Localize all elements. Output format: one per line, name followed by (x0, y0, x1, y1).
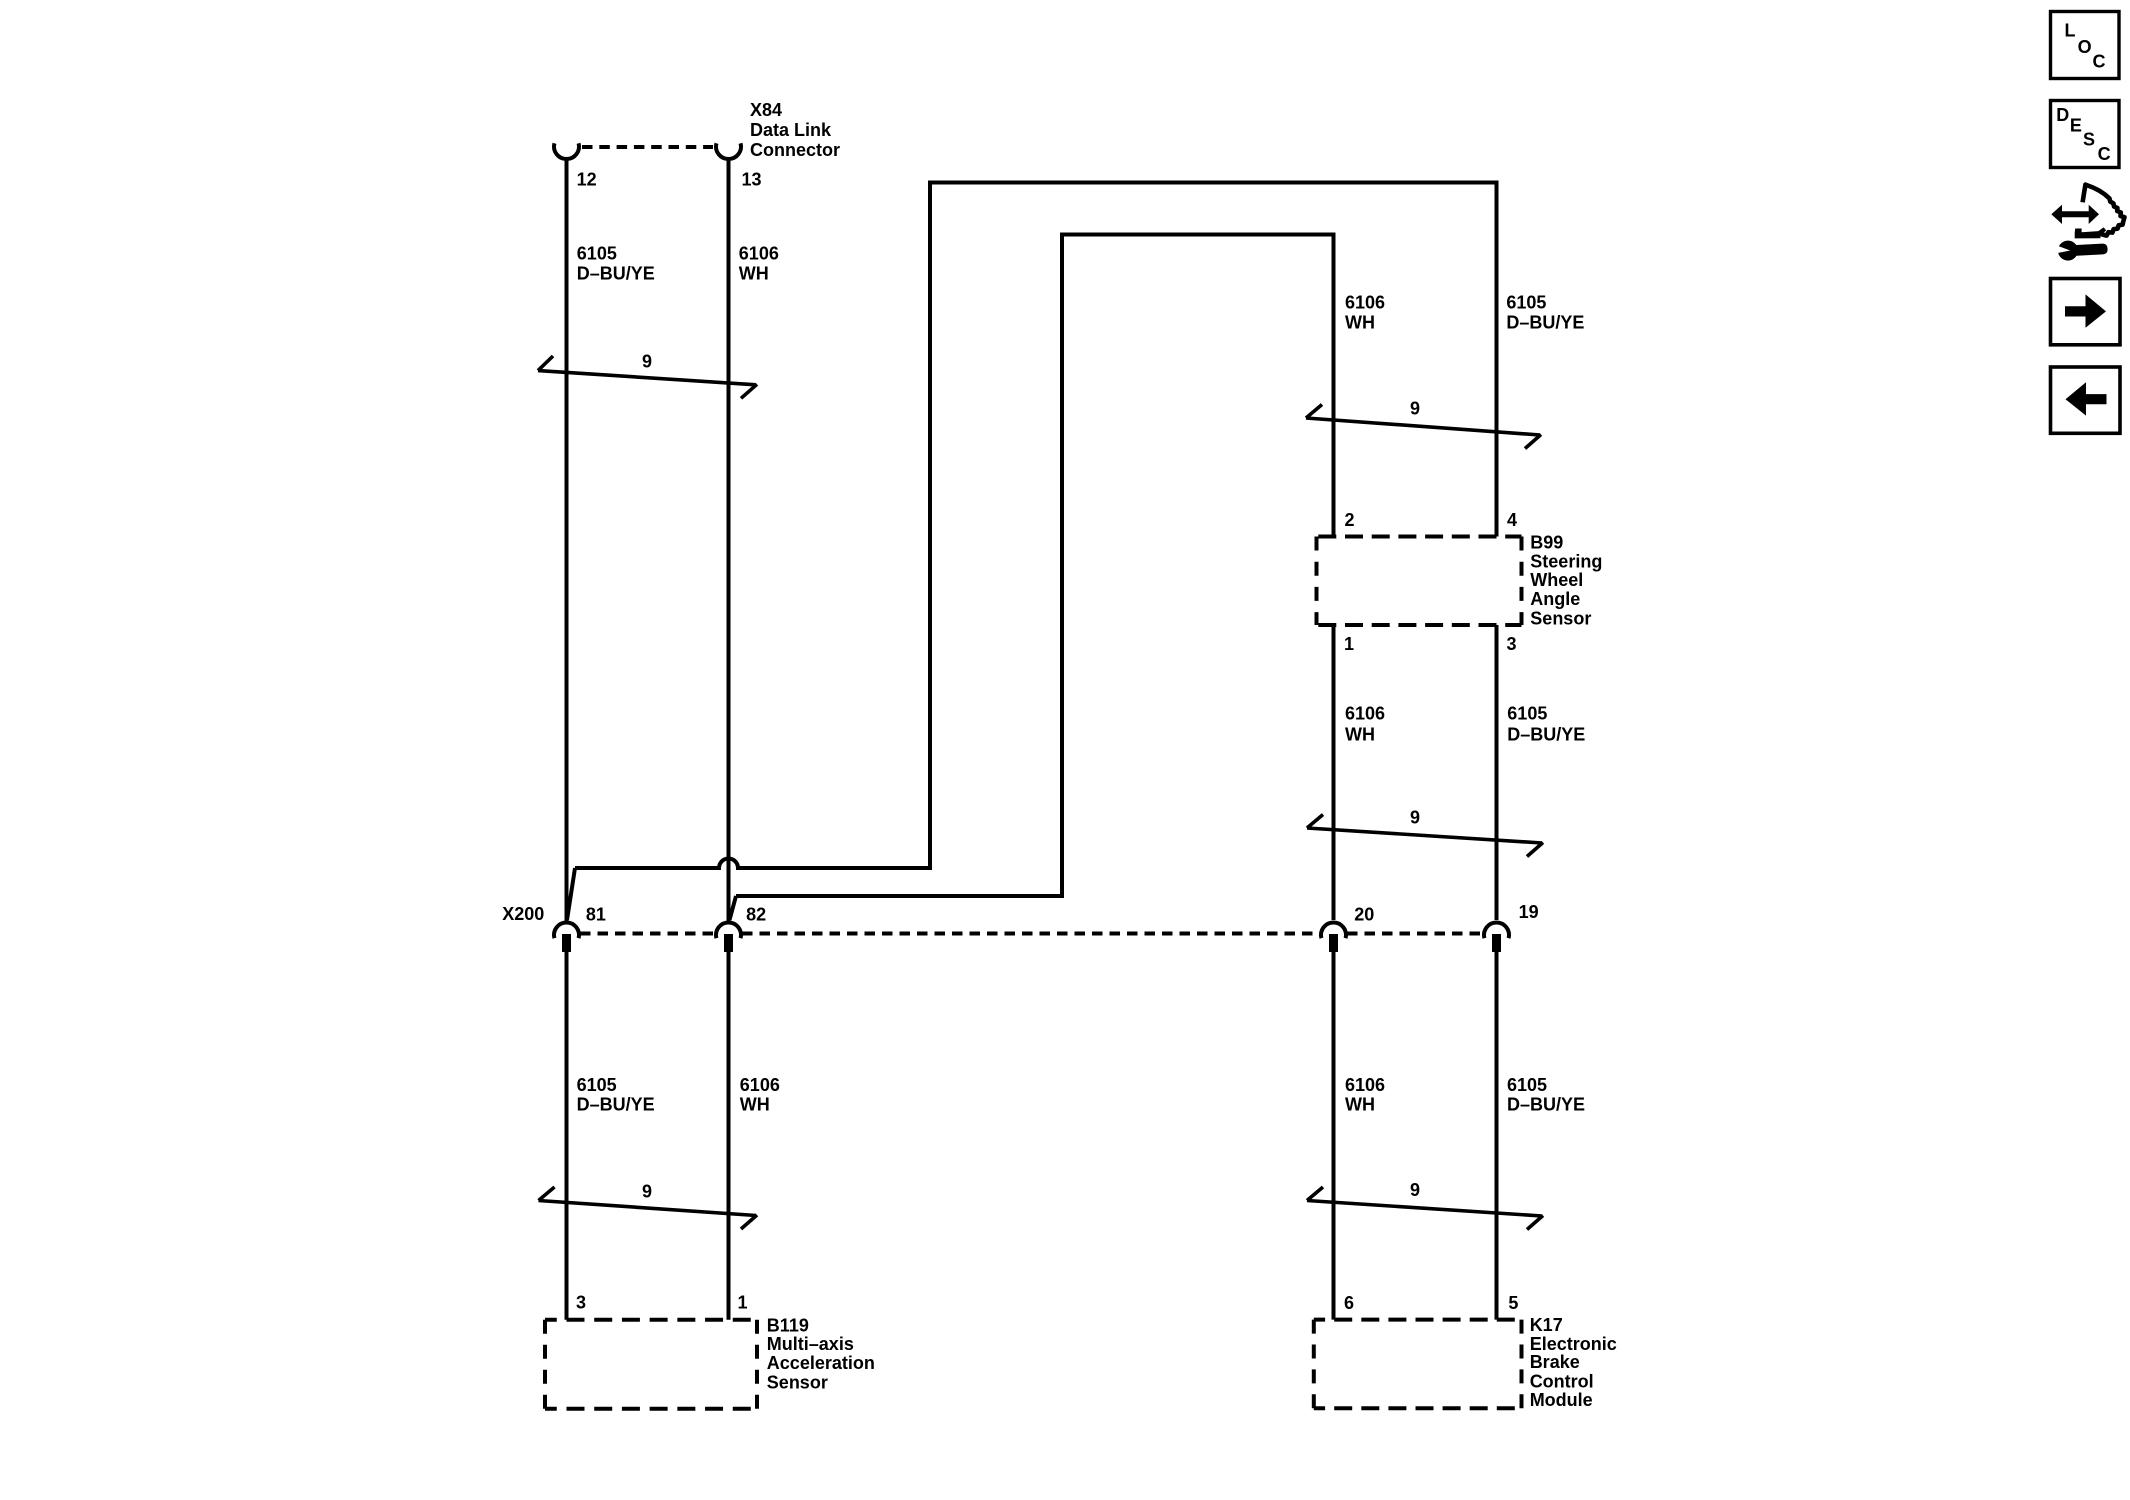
svg-text:Wheel: Wheel (1530, 570, 1583, 590)
label B99 Steering Wheel Angle Sensor (1530, 533, 1602, 629)
wire: diagonal joint of 6105 bus into X200 pin 81 (567, 868, 575, 920)
svg-text:1: 1 (1344, 634, 1354, 654)
svg-text:2: 2 (1345, 510, 1355, 530)
svg-text:B119: B119 (767, 1315, 809, 1335)
wire label 6106 WH (middle right) (1345, 704, 1385, 745)
svg-text:K17: K17 (1530, 1315, 1563, 1335)
svg-text:D–BU/YE: D–BU/YE (1507, 724, 1585, 744)
sidebar LOC button (2051, 12, 2120, 79)
svg-text:WH: WH (740, 1094, 770, 1114)
svg-text:X200: X200 (502, 904, 544, 924)
twisted-pair symbol (middle right pair) (1307, 815, 1543, 857)
connector X84 right cavity symbol (pin 13) (716, 143, 741, 159)
wire label 6106 WH (upper left) (739, 244, 779, 284)
svg-text:Sensor: Sensor (1530, 608, 1591, 628)
svg-text:1: 1 (738, 1293, 748, 1313)
svg-text:6105: 6105 (1507, 704, 1547, 724)
connector X84 left cavity symbol (pin 12) (554, 143, 579, 159)
wire label 6105 D-BU/YE (lower left) (577, 1075, 655, 1114)
lower bar of reference icon (2075, 227, 2107, 238)
connector X200 dashed body line segment 1 (580, 932, 715, 936)
wire 6105 D-BU/YE from X200 pin 19 down to K17 pin 5 (1495, 952, 1499, 1320)
svg-text:X84: X84 (750, 100, 782, 120)
twisted-pair symbol (lower left pair) (539, 1187, 758, 1229)
twisted-pair symbol (upper right pair) (1306, 405, 1541, 449)
sidebar previous-page button (left arrow) (2051, 367, 2121, 433)
label X84 Data Link Connector (750, 100, 840, 160)
svg-text:6105: 6105 (577, 244, 617, 264)
component K17 dashed box (1314, 1320, 1522, 1409)
svg-text:6105: 6105 (1507, 1075, 1547, 1095)
wire label 6105 D-BU/YE (lower right) (1507, 1075, 1585, 1114)
X200 pin 19 terminal tick (1492, 934, 1501, 952)
svg-text:82: 82 (746, 905, 766, 925)
wire label 6106 WH (lower left) (740, 1075, 780, 1114)
connector X200 dashed body line segment 3 (1347, 932, 1483, 936)
svg-text:Electronic: Electronic (1530, 1334, 1617, 1354)
wrench of reference icon (2054, 239, 2108, 262)
twisted-pair symbol (upper left pair) (538, 356, 757, 398)
svg-text:9: 9 (1410, 1180, 1420, 1200)
svg-text:E: E (2070, 116, 2082, 136)
connector X200 pin 81 dome symbol (554, 922, 579, 938)
svg-text:D–BU/YE: D–BU/YE (1507, 1094, 1585, 1114)
wire 6105 D-BU/YE from X84 pin 12 down to X200 pin 81 (565, 158, 569, 921)
jagged outline of reference icon (2083, 185, 2125, 236)
svg-text:6106: 6106 (739, 244, 779, 264)
wire: diagonal joint of 6106 bus into X200 pin 82 (730, 896, 737, 920)
svg-text:Data Link: Data Link (750, 120, 832, 140)
svg-text:O: O (2078, 37, 2092, 57)
svg-text:WH: WH (1345, 1094, 1375, 1114)
wire label 6105 D-BU/YE (upper right) (1506, 293, 1584, 333)
svg-text:6105: 6105 (577, 1075, 617, 1095)
wire 6106 WH from X200 pin 82 down to B119 pin 1 (727, 952, 731, 1320)
svg-text:6106: 6106 (1345, 704, 1385, 724)
svg-text:6106: 6106 (1345, 293, 1385, 313)
component B119 dashed box (545, 1320, 757, 1409)
svg-text:5: 5 (1508, 1293, 1518, 1313)
wire bus 6105: branch from X200 pin 81 up-over to B99 pin 4 (hops over WH wire) (575, 183, 1497, 869)
svg-text:6106: 6106 (1345, 1075, 1385, 1095)
label B119 Multi-axis Acceleration Sensor (767, 1315, 875, 1392)
sidebar next-page button (right arrow) (2051, 279, 2121, 345)
wire 6106 WH from X200 pin 20 down to K17 pin 6 (1332, 952, 1336, 1320)
svg-text:81: 81 (586, 905, 606, 925)
svg-text:C: C (2098, 144, 2111, 164)
svg-text:12: 12 (577, 170, 597, 190)
svg-text:D–BU/YE: D–BU/YE (577, 264, 655, 284)
svg-text:L: L (2065, 21, 2076, 41)
wire 6106 WH from B99 pin 1 down to X200 pin 20 (1332, 625, 1336, 920)
svg-text:D: D (2056, 105, 2069, 125)
wire label 6105 D-BU/YE (upper left) (577, 244, 655, 284)
X200 pin 81 terminal tick (562, 934, 571, 952)
wire 6105 D-BU/YE from B99 pin 3 down to X200 pin 19 (1495, 625, 1499, 920)
svg-text:6105: 6105 (1506, 293, 1546, 313)
connector X200 pin 19 dome symbol (1484, 922, 1509, 938)
svg-text:Brake: Brake (1530, 1352, 1580, 1372)
svg-text:Module: Module (1530, 1390, 1593, 1410)
wire label 6106 WH (upper right) (1345, 293, 1385, 333)
double-headed arrow of reference icon (2051, 205, 2099, 224)
svg-text:D–BU/YE: D–BU/YE (1506, 313, 1584, 333)
wire label 6105 D-BU/YE (middle right) (1507, 704, 1585, 745)
wire label 6106 WH (lower right) (1345, 1075, 1385, 1114)
svg-text:S: S (2083, 129, 2095, 149)
sidebar DESC button (2051, 101, 2120, 168)
svg-text:9: 9 (642, 351, 652, 371)
label K17 Electronic Brake Control Module (1530, 1315, 1617, 1410)
svg-text:Angle: Angle (1530, 589, 1580, 609)
svg-text:4: 4 (1507, 510, 1517, 530)
svg-text:20: 20 (1354, 905, 1374, 925)
svg-text:D–BU/YE: D–BU/YE (577, 1094, 655, 1114)
svg-text:6: 6 (1344, 1293, 1354, 1313)
svg-text:WH: WH (1345, 313, 1375, 333)
connector X200 pin 20 dome symbol (1321, 922, 1346, 938)
svg-text:Acceleration: Acceleration (767, 1353, 875, 1373)
connector X200 pin 82 dome symbol (716, 922, 741, 938)
svg-text:Multi–axis: Multi–axis (767, 1334, 854, 1354)
svg-text:3: 3 (1507, 634, 1517, 654)
wire 6106 WH from X84 pin 13 down to X200 pin 82 (727, 158, 731, 921)
svg-text:6106: 6106 (740, 1075, 780, 1095)
X200 pin 20 terminal tick (1329, 934, 1338, 952)
svg-text:Sensor: Sensor (767, 1372, 828, 1392)
svg-text:Steering: Steering (1530, 551, 1602, 571)
svg-text:9: 9 (1410, 808, 1420, 828)
svg-text:19: 19 (1519, 902, 1539, 922)
wire bus 6106: branch from X200 pin 82 up-over to B99 pin 2 (736, 235, 1334, 897)
twisted-pair symbol (lower right pair) (1307, 1187, 1543, 1230)
svg-text:WH: WH (1345, 724, 1375, 744)
svg-text:WH: WH (739, 264, 769, 284)
svg-text:9: 9 (1410, 399, 1420, 419)
svg-text:3: 3 (576, 1293, 586, 1313)
svg-text:13: 13 (742, 170, 762, 190)
svg-text:C: C (2093, 51, 2106, 71)
svg-text:Connector: Connector (750, 140, 840, 160)
svg-text:Control: Control (1530, 1371, 1594, 1391)
svg-text:B99: B99 (1530, 533, 1563, 553)
svg-text:9: 9 (642, 1181, 652, 1201)
sidebar schematic-reference icon (double arrow, outline, wrench) (2051, 185, 2124, 262)
X200 pin 82 terminal tick (724, 934, 733, 952)
connector X200 dashed body line segment 2 (742, 932, 1320, 936)
component B99 dashed box (1317, 537, 1522, 626)
wire 6105 D-BU/YE from X200 pin 81 down to B119 pin 3 (565, 952, 569, 1320)
connector X84 dashed body line (582, 145, 713, 149)
